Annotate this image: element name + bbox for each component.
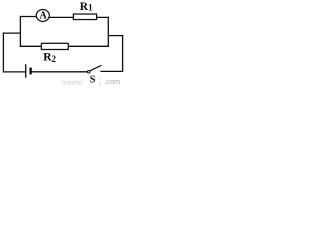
svg-text:R2: R2 (43, 51, 56, 64)
wire (32, 71, 88, 73)
resistor R2 (41, 43, 68, 49)
svg-text:A: A (39, 11, 47, 22)
wire (3, 71, 25, 73)
resistor R1 (73, 14, 96, 19)
wire (68, 45, 108, 47)
wire (122, 36, 124, 72)
wire (108, 35, 122, 37)
wire (49, 16, 73, 18)
wire (20, 16, 36, 18)
wire (97, 16, 109, 18)
wire (3, 32, 20, 34)
wire (19, 17, 21, 47)
svg-text:R1: R1 (80, 1, 93, 13)
wire (101, 70, 123, 72)
svg-text:manfsi: manfsi (62, 80, 83, 87)
battery (26, 64, 31, 77)
wire (2, 33, 4, 72)
wire (20, 45, 41, 47)
wire (107, 17, 109, 46)
svg-text:⋮.com: ⋮.com (97, 77, 121, 86)
ammeter (36, 10, 49, 22)
watermark (62, 77, 120, 87)
switch S (87, 65, 101, 73)
